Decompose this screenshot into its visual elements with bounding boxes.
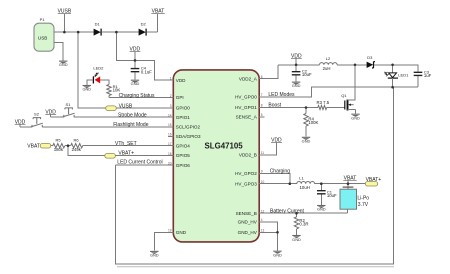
node VDD label (C2) xyxy=(291,53,302,64)
svg-text:VBAT+: VBAT+ xyxy=(118,150,134,156)
svg-text:3.7V: 3.7V xyxy=(358,202,369,208)
wire net Charging HV_GPO2 jog down xyxy=(259,169,290,184)
node VBAT top label xyxy=(151,9,164,32)
wire VBUS from USB to D1 xyxy=(54,31,94,33)
wire D2 cathode to VBAT xyxy=(147,31,158,33)
ground (C1) xyxy=(317,206,326,212)
svg-text:Q1: Q1 xyxy=(341,93,347,98)
node VDD label (S2) xyxy=(15,119,26,127)
USB connector P1 xyxy=(34,17,54,51)
svg-text:VDD2_A: VDD2_A xyxy=(239,76,258,81)
pin 6 VDD2_A label xyxy=(239,75,263,81)
LED LED1 white xyxy=(384,65,409,87)
pin 8 HV_GPO1 label xyxy=(235,104,263,110)
resistor R1 10K xyxy=(107,84,121,98)
pin 10 HV_GPO3 label xyxy=(235,180,264,186)
diode D2 xyxy=(139,21,147,35)
wire LED1 cathode rail xyxy=(393,86,418,88)
battery BT1 Li-Po xyxy=(340,184,369,214)
svg-text:LED1: LED1 xyxy=(398,73,409,78)
wire net Strobe Mode S1 to GPIO1 xyxy=(74,112,173,118)
svg-text:15: 15 xyxy=(168,123,172,127)
wire net Battery Current SENSE_B to battery minus xyxy=(259,208,347,214)
node VBAT+ net label capsule (right) xyxy=(365,177,381,186)
pin 9 HV_GPO2 label xyxy=(235,170,263,176)
ground (Q1) xyxy=(351,114,360,120)
svg-text:180k: 180k xyxy=(54,147,64,152)
svg-text:SDA/GPIO3: SDA/GPIO3 xyxy=(176,134,201,139)
svg-text:HV_GPO1: HV_GPO1 xyxy=(235,105,257,110)
svg-text:D3: D3 xyxy=(367,55,373,60)
ground (R2) xyxy=(292,236,301,243)
ground (GND_HV) xyxy=(273,251,282,257)
wire VDD to S2 xyxy=(20,126,32,128)
pin 18 GPIO5 label xyxy=(168,152,190,158)
svg-text:GND: GND xyxy=(82,87,91,92)
node VDD label (C4) xyxy=(130,47,141,61)
node VUSB net label capsule xyxy=(106,103,133,110)
svg-text:HV_GPO3: HV_GPO3 xyxy=(235,181,257,186)
wire USB shield to ground xyxy=(54,43,63,61)
svg-text:0.1uF: 0.1uF xyxy=(141,69,152,74)
ground (USB) xyxy=(59,61,68,67)
wire VUSB vertical down to GPIO0 row xyxy=(78,32,173,108)
svg-text:VBAT: VBAT xyxy=(27,143,40,149)
wire D1 cathode to D2 anode xyxy=(102,31,139,33)
svg-text:Flashlight Mode: Flashlight Mode xyxy=(113,122,149,128)
svg-text:S2: S2 xyxy=(34,112,40,117)
wire VDD to S1 xyxy=(51,116,64,118)
svg-text:GND: GND xyxy=(292,83,301,88)
pin 11 VDD2_B label xyxy=(239,151,264,157)
wire VBAT divider junction down to GPIO5 row xyxy=(68,146,173,156)
svg-text:R5: R5 xyxy=(55,138,61,143)
pin 13 GND_HV label xyxy=(238,229,265,235)
wire LED2 cathode to ground xyxy=(87,80,93,85)
resistor R6 249k xyxy=(71,138,83,152)
node VDD label (S1) xyxy=(45,110,56,118)
wire Q1 drain up to boost switch node xyxy=(354,65,356,100)
wire net Charging Status to GPI xyxy=(109,93,173,99)
node VBAT label (battery) xyxy=(343,175,356,183)
svg-text:GPIO6: GPIO6 xyxy=(176,163,190,168)
svg-text:0.3R: 0.3R xyxy=(299,222,308,227)
svg-text:GND: GND xyxy=(59,62,68,67)
svg-text:LED Current Control: LED Current Control xyxy=(117,160,162,166)
pin 14 GPIO1 label xyxy=(168,113,190,119)
ground (R4) xyxy=(302,137,311,143)
capacitor C2 10uF xyxy=(292,65,312,82)
svg-text:HV_GPO0: HV_GPO0 xyxy=(235,95,257,100)
wire chip GND pin to ground xyxy=(154,232,173,250)
resistor R2 0.3R xyxy=(294,213,308,235)
svg-text:GND_HV: GND_HV xyxy=(238,219,258,224)
wire L1 to VBAT+ capsule xyxy=(315,183,366,185)
svg-text:GND: GND xyxy=(131,81,140,86)
svg-text:2uH: 2uH xyxy=(323,66,331,71)
wire VDD branch down from D1/D2 junction to chip pin 1 xyxy=(116,32,173,80)
diode D1 xyxy=(94,21,102,35)
resistor R4 100K xyxy=(304,108,319,137)
pin 1 VDD label xyxy=(170,76,186,82)
wire net Boost HV_GPO1 to R3 xyxy=(259,103,318,109)
svg-text:249k: 249k xyxy=(72,147,82,152)
svg-text:10uF: 10uF xyxy=(302,72,312,77)
pin 4 GND_HV label xyxy=(238,218,263,224)
svg-text:VDD2_B: VDD2_B xyxy=(239,153,257,158)
svg-text:GND: GND xyxy=(273,252,282,257)
inductor L2 2uH xyxy=(320,56,338,71)
svg-text:SCL/GPIO2: SCL/GPIO2 xyxy=(176,124,201,129)
svg-text:GND: GND xyxy=(292,237,301,242)
wire D3 cathode to C3 top xyxy=(374,65,418,72)
svg-text:10uH: 10uH xyxy=(300,185,310,190)
svg-text:Strobe Mode: Strobe Mode xyxy=(118,112,147,118)
svg-text:10uF: 10uF xyxy=(327,193,337,198)
pin 19 GND label xyxy=(168,229,187,235)
pin 12 SENSE_B label xyxy=(236,209,265,215)
svg-text:GND: GND xyxy=(351,115,360,120)
wire VDD2_B pin to VDD label xyxy=(259,143,276,155)
svg-text:D2: D2 xyxy=(141,21,147,26)
inductor L1 10uH xyxy=(297,175,315,190)
svg-text:GND: GND xyxy=(176,230,187,235)
svg-text:VDD: VDD xyxy=(176,78,186,83)
svg-text:L2: L2 xyxy=(326,56,331,61)
pin 5 SENSE_A stub xyxy=(259,116,265,118)
pin 20 GPIO6 label xyxy=(168,161,190,167)
resistor R3 7.5 xyxy=(317,100,330,110)
svg-text:GND: GND xyxy=(317,207,326,212)
ground (C4) xyxy=(131,80,140,86)
svg-text:GPI: GPI xyxy=(176,95,184,100)
svg-text:Battery Current: Battery Current xyxy=(270,208,305,214)
wire net Flashlight Mode S2 to SCL/GPIO2 xyxy=(42,122,173,128)
ground (C2) xyxy=(292,82,301,88)
svg-text:Boost: Boost xyxy=(268,103,281,109)
wire LED current loop around bottom xyxy=(116,87,394,264)
pin 5 SENSE_A label xyxy=(236,113,263,119)
svg-text:GPIO0: GPIO0 xyxy=(176,105,190,110)
wire net VTh_SET R6 to GPIO4 xyxy=(83,141,174,147)
wire GND_HV pins to ground xyxy=(259,222,277,251)
transistor Q1 xyxy=(341,93,355,114)
svg-text:LED Modes: LED Modes xyxy=(268,92,295,98)
svg-text:GPIO5: GPIO5 xyxy=(176,153,190,158)
node VBAT net label capsule (bottom left) xyxy=(27,143,51,149)
svg-text:R6: R6 xyxy=(73,138,79,143)
svg-text:R3 7.5: R3 7.5 xyxy=(317,100,330,105)
svg-text:SLG47105: SLG47105 xyxy=(205,141,244,150)
wire net LED Modes HV_GPO0 to LED cathode rail xyxy=(259,87,393,98)
node VDD label (VDD2_B) xyxy=(271,138,282,144)
op-amp U1 SLG47105 chip body xyxy=(173,70,259,242)
ground (LED2) xyxy=(82,86,91,92)
svg-text:GND_HV: GND_HV xyxy=(238,230,258,235)
svg-text:LED2: LED2 xyxy=(93,66,104,71)
node VBAT+ net label capsule (GPIO5) xyxy=(105,150,134,158)
pin 17 GPIO4 label xyxy=(168,142,190,148)
pin 15 SCL/GPIO2 label xyxy=(168,123,201,129)
svg-text:D1: D1 xyxy=(95,21,101,26)
wire net LED Current Control to GPIO6 xyxy=(116,160,174,166)
pin 3 GPIO0 label xyxy=(170,104,191,110)
svg-text:P1: P1 xyxy=(40,17,46,22)
wire R3 to Q1 gate xyxy=(327,107,345,109)
svg-text:Li-Po: Li-Po xyxy=(357,195,369,201)
wire VDD2_A pin up to boost rail xyxy=(259,65,278,79)
wire R5 to R6 xyxy=(65,145,71,147)
wire boost rail VDD junction to L2 xyxy=(278,64,320,66)
LED LED2 red charging indicator xyxy=(93,66,104,84)
switch S2 flashlight xyxy=(31,112,43,128)
svg-text:Charging: Charging xyxy=(270,169,291,175)
svg-text:SENSE_B: SENSE_B xyxy=(236,211,257,216)
pin 16 stub xyxy=(168,135,173,137)
wire LED2 anode to R1 xyxy=(100,80,109,85)
ground (chip GND) xyxy=(150,251,159,257)
svg-text:USB: USB xyxy=(38,35,47,40)
capacitor C3 1uF xyxy=(414,69,432,87)
wire shadow line bottom xyxy=(117,266,394,268)
diode D3 schottky xyxy=(367,55,375,68)
pin 7 HV_GPO0 label xyxy=(235,93,263,99)
wire HV_GPO3 to L1 xyxy=(259,183,297,185)
node VUSB top label xyxy=(58,9,72,32)
svg-text:VUSB: VUSB xyxy=(119,103,133,109)
svg-text:1uF: 1uF xyxy=(424,73,432,78)
switch S1 strobe xyxy=(63,102,75,117)
svg-text:SENSE_A: SENSE_A xyxy=(236,115,258,120)
pin 2 GPI label xyxy=(170,94,184,100)
svg-text:100K: 100K xyxy=(308,120,318,125)
resistor R5 180k xyxy=(53,138,65,152)
pin 16 SDA/GPIO3 label xyxy=(168,133,201,139)
svg-text:Charging Status: Charging Status xyxy=(119,93,155,99)
svg-text:GPIO4: GPIO4 xyxy=(176,143,190,148)
wire VBAT capsule to R5 xyxy=(51,145,53,147)
wire L2 to D3 xyxy=(337,64,367,66)
svg-text:GND: GND xyxy=(150,252,159,257)
capacitor C1 10uF xyxy=(317,184,337,205)
svg-text:S1: S1 xyxy=(66,102,72,107)
svg-text:GND: GND xyxy=(302,138,311,143)
capacitor C4 0.1uF xyxy=(131,60,153,79)
svg-text:VTh_SET: VTh_SET xyxy=(115,141,137,147)
svg-text:HV_GPO2: HV_GPO2 xyxy=(235,171,257,176)
svg-text:L1: L1 xyxy=(299,175,304,180)
svg-text:3: 3 xyxy=(170,104,172,108)
svg-text:10K: 10K xyxy=(113,87,121,92)
svg-text:GPIO1: GPIO1 xyxy=(176,115,190,120)
